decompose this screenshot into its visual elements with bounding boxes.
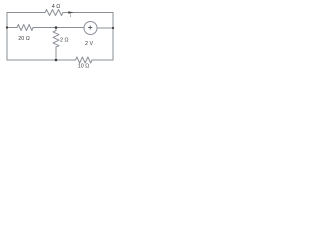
svg-text:2 V: 2 V [85,41,93,47]
node B junction dot [55,26,58,29]
wire middle-left stub [7,27,17,29]
node C junction dot [55,59,58,62]
wire top-right segment [63,12,113,14]
plus sign inside source [88,26,92,30]
wire node B to source [56,27,84,29]
resistor R4 10Ω (bottom) [76,57,93,63]
wire right wall [112,13,114,61]
svg-text:10 Ω: 10 Ω [78,64,90,70]
wire left wall [6,13,8,61]
wire bottom-left segment [7,59,76,61]
node D junction dot [112,27,114,29]
svg-text:2 Ω: 2 Ω [60,38,69,44]
node A junction dot [6,26,8,28]
svg-text:20 Ω: 20 Ω [18,36,30,42]
resistor R3 2Ω (vertical) [53,28,59,61]
wire middle segment to node B [33,27,56,29]
voltage source V1 circle [84,22,97,35]
svg-text:i: i [70,13,72,18]
current arrow i [68,11,73,14]
wire top-left segment [7,12,45,14]
resistor R1 4Ω (top) [45,10,63,16]
wire bottom-right segment [92,59,113,61]
resistor R2 20Ω (middle-left) [17,25,33,31]
svg-text:4 Ω: 4 Ω [52,4,61,10]
wire source to right wall [97,27,113,29]
